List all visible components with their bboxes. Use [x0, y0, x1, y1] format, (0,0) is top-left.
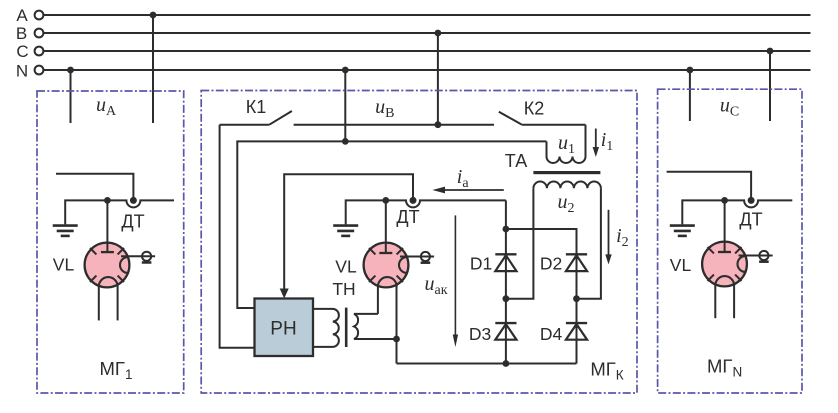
wire bridge left column	[505, 229, 507, 364]
node anode (MG1)	[104, 197, 111, 204]
node bridge bottom	[503, 360, 510, 367]
wire stub A to MG1	[152, 15, 154, 123]
node anode (MGk)	[382, 197, 389, 204]
MGN enclosure	[658, 89, 802, 393]
svg-text:A: A	[16, 6, 28, 25]
transformer TH primary	[313, 309, 339, 347]
svg-text:ДТ: ДТ	[396, 207, 419, 227]
transformer TA secondary winding u2	[533, 182, 601, 189]
terminal B	[35, 29, 44, 38]
svg-text:B: B	[16, 24, 27, 43]
wire sense to DT (MG1)	[56, 174, 133, 198]
transformer TH core	[345, 308, 348, 347]
ground (MGk)	[333, 200, 386, 236]
node bridge mid right	[573, 295, 580, 302]
arrow i1	[593, 129, 599, 158]
sensor dot DT (MGN)	[748, 197, 755, 204]
wire DT line (MG1)	[107, 200, 174, 207]
svg-text:К1: К1	[246, 97, 267, 117]
svg-text:К2: К2	[524, 99, 545, 119]
svg-text:D2: D2	[540, 254, 562, 274]
svg-text:МГ1: МГ1	[100, 358, 133, 382]
wire DT line (MGN)	[725, 200, 793, 207]
ground (MGN)	[670, 200, 725, 236]
svg-text:u1: u1	[558, 132, 575, 157]
svg-text:ТН: ТН	[332, 279, 355, 299]
node anode (MGN)	[721, 197, 728, 204]
wire bridge right column	[576, 254, 578, 363]
arrow into PH	[280, 289, 289, 299]
svg-text:D4: D4	[540, 324, 563, 344]
MG1 enclosure	[37, 91, 184, 393]
node bridge mid left	[503, 295, 510, 302]
wire TA secondary right lead	[577, 188, 601, 298]
svg-text:uB: uB	[375, 96, 394, 121]
wire bus N	[44, 69, 811, 71]
svg-text:VL: VL	[670, 255, 692, 275]
node on N for MG1	[67, 67, 74, 74]
arrow uak	[453, 215, 458, 347]
node on A for MG1	[150, 12, 157, 19]
svg-text:VL: VL	[53, 255, 75, 275]
wire bus C	[44, 50, 811, 52]
transformer TH secondary	[354, 314, 397, 339]
terminal C	[35, 47, 44, 56]
lamp VL (MGN)	[702, 200, 773, 318]
wire sense to DT (MGN)	[667, 172, 752, 198]
wire DT line (MGk)	[386, 200, 506, 207]
svg-text:ДТ: ДТ	[739, 210, 762, 230]
node on wire at MGk	[342, 138, 349, 145]
wire bridge bottom	[397, 363, 577, 365]
node bridge top	[503, 226, 510, 233]
regulator PH	[255, 299, 314, 357]
wire B drop to K-wire	[437, 33, 439, 125]
wire K1 left down to PH	[220, 125, 255, 348]
diode D3	[495, 323, 516, 340]
svg-text:РН: РН	[270, 319, 296, 340]
node on B for MGk	[435, 30, 442, 37]
wire bridge feed from DT	[505, 200, 507, 229]
terminal A	[35, 11, 44, 20]
node on N for MGk	[342, 67, 349, 74]
lamp VL (MGk)	[364, 200, 435, 363]
wire N feed to TA and PH	[237, 141, 546, 308]
wire stub C to MGN	[769, 51, 771, 121]
svg-text:ТА: ТА	[505, 151, 527, 171]
svg-text:uак: uак	[424, 273, 447, 298]
ground (MG1)	[53, 200, 108, 236]
arrow ia	[432, 187, 503, 194]
diode D2	[566, 254, 587, 271]
sensor dot DT (MG1)	[130, 197, 137, 204]
svg-text:uC: uC	[720, 95, 739, 120]
switch K2	[499, 112, 586, 125]
terminal N	[35, 66, 44, 75]
svg-text:D3: D3	[469, 324, 491, 344]
svg-text:uA: uA	[96, 94, 117, 119]
wire TA secondary left lead	[506, 188, 534, 298]
node on C for MGN	[767, 48, 774, 55]
wire stub N to MGN	[689, 70, 691, 121]
svg-text:u2: u2	[558, 191, 575, 216]
diode D4	[566, 323, 587, 340]
node TH secondary to lamp leg	[393, 336, 400, 343]
node on N for MGN	[687, 67, 694, 74]
sensor dot DT (MGk)	[410, 197, 417, 204]
transformer TA core	[533, 171, 600, 174]
svg-text:i1: i1	[601, 129, 614, 154]
wire bus B	[44, 32, 811, 34]
wire stub N to MG1	[70, 70, 72, 123]
svg-text:iа: iа	[457, 166, 470, 191]
svg-text:МГN: МГN	[707, 356, 742, 380]
svg-text:VL: VL	[335, 257, 357, 277]
switch K1	[220, 111, 494, 125]
transformer TA primary winding u1	[547, 157, 586, 164]
arrow i2	[605, 210, 611, 265]
phase labels A B C N	[16, 6, 29, 81]
wire N drop to MGk	[344, 70, 346, 141]
wire anode sense to DT (MGk)	[284, 174, 413, 291]
svg-text:ДТ: ДТ	[121, 212, 144, 232]
svg-text:i2: i2	[616, 225, 629, 250]
transformer TA primary feed	[585, 125, 587, 157]
svg-text:N: N	[16, 62, 28, 81]
lamp VL (MG1)	[85, 200, 156, 320]
svg-text:C: C	[16, 42, 28, 61]
diode D1	[495, 254, 516, 271]
MGk enclosure	[201, 91, 637, 394]
svg-text:D1: D1	[470, 254, 492, 274]
wire bus A	[44, 14, 811, 16]
transformer TA primary left lead	[546, 141, 548, 156]
svg-text:МГК: МГК	[590, 359, 623, 383]
wire bridge top	[506, 229, 577, 254]
node on K-wire	[435, 121, 442, 128]
